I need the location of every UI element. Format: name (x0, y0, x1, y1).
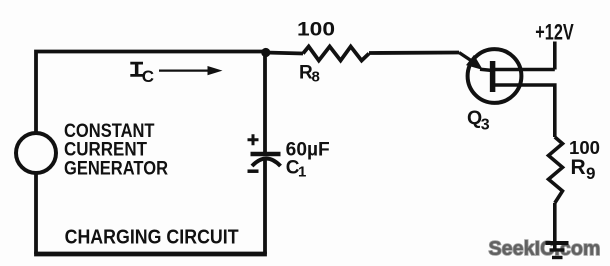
svg-text:9: 9 (586, 164, 595, 183)
svg-text:GENERATOR: GENERATOR (64, 159, 168, 180)
svg-text:100: 100 (569, 137, 600, 158)
svg-text:8: 8 (312, 69, 320, 86)
svg-text:R: R (571, 156, 586, 179)
svg-text:100: 100 (297, 18, 335, 40)
svg-text:C: C (142, 67, 154, 86)
svg-text:CHARGING CIRCUIT: CHARGING CIRCUIT (65, 227, 239, 249)
svg-text:1: 1 (298, 164, 306, 181)
svg-text:+12V: +12V (535, 19, 574, 44)
svg-text:3: 3 (481, 116, 490, 133)
svg-text:CURRENT: CURRENT (64, 140, 147, 161)
svg-text:SeekIC.com: SeekIC.com (489, 237, 601, 260)
